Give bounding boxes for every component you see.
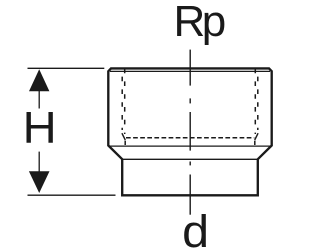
svg-text:d: d <box>182 206 209 250</box>
svg-text:H: H <box>23 102 57 152</box>
svg-text:Rp: Rp <box>174 0 225 46</box>
